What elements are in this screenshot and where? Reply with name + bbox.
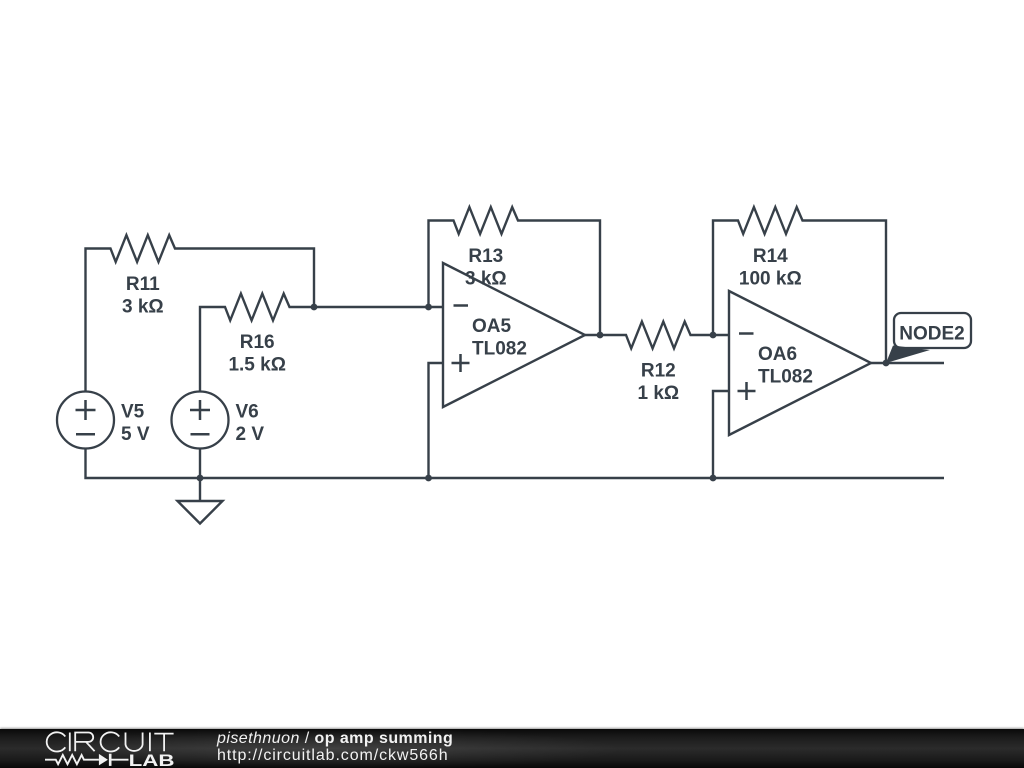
op-amp OA6 plus marker <box>738 382 756 400</box>
svg-text:OA5: OA5 <box>472 316 512 337</box>
svg-text:1.5 kΩ: 1.5 kΩ <box>228 354 286 375</box>
logo letter C <box>101 732 120 751</box>
wire output NODE2 <box>871 362 944 364</box>
node flag NODE2 box <box>894 313 971 348</box>
logo letter T <box>154 734 173 752</box>
CircuitLab logo CIRCUIT <box>0 729 200 768</box>
logo diode <box>99 754 108 766</box>
svg-text:OA6: OA6 <box>758 344 797 365</box>
svg-text:R13: R13 <box>468 246 503 267</box>
junction ground <box>197 475 204 482</box>
svg-text:R16: R16 <box>240 332 275 353</box>
logo letter I <box>69 733 71 752</box>
junction rail OA6 <box>710 475 717 482</box>
wire bottom rail <box>86 449 945 479</box>
svg-text:100 kΩ: 100 kΩ <box>739 268 802 289</box>
op-amp OA5 minus marker <box>454 304 469 307</box>
op-amp OA6 minus marker <box>739 332 754 335</box>
bottom bar <box>0 729 1024 768</box>
svg-text:R14: R14 <box>753 246 788 267</box>
logo diode bar <box>109 754 112 766</box>
resistor R14 feedback <box>713 207 886 363</box>
svg-text:3 kΩ: 3 kΩ <box>122 296 164 317</box>
ground <box>178 478 223 524</box>
svg-text:LAB: LAB <box>129 752 175 768</box>
wire op-amp OA6 plus input <box>713 391 729 478</box>
node NODE2 pointer <box>886 346 930 364</box>
svg-text:R12: R12 <box>641 361 676 382</box>
svg-text:NODE2: NODE2 <box>899 324 964 345</box>
resistor R11 <box>86 235 315 391</box>
junction OA5 inverting input <box>425 304 432 311</box>
junction R11/R16 <box>311 304 318 311</box>
voltage source V6 <box>172 392 229 449</box>
logo letter C <box>47 732 66 751</box>
logo letter U <box>126 733 143 751</box>
junction rail OA5 <box>425 475 432 482</box>
svg-text:TL082: TL082 <box>758 366 813 387</box>
wire op-amp OA5 plus input <box>429 363 444 478</box>
op-amp OA5 <box>443 263 585 407</box>
svg-text:1 kΩ: 1 kΩ <box>637 383 679 404</box>
op-amp OA5 plus marker <box>452 354 470 372</box>
svg-text:TL082: TL082 <box>472 338 527 359</box>
svg-text:R11: R11 <box>126 274 160 295</box>
logo letter I <box>149 733 151 752</box>
op-amp OA6 <box>729 291 871 435</box>
junction NODE2 output <box>883 360 890 367</box>
resistor R13 feedback <box>429 207 601 335</box>
svg-text:3 kΩ: 3 kΩ <box>465 268 507 289</box>
junction OA6 inverting input <box>710 332 717 339</box>
wire V6 bottom <box>199 449 201 479</box>
resistor R16 <box>200 294 443 392</box>
svg-text:V5: V5 <box>121 402 145 423</box>
svg-text:V6: V6 <box>236 402 259 423</box>
logo wire resistor <box>45 755 129 764</box>
voltage source V5 <box>57 392 114 449</box>
svg-text:5 V: 5 V <box>121 424 150 445</box>
logo letter R <box>75 733 94 752</box>
junction OA5 output <box>597 332 604 339</box>
resistor R12 <box>585 322 729 349</box>
svg-text:2 V: 2 V <box>236 424 265 445</box>
